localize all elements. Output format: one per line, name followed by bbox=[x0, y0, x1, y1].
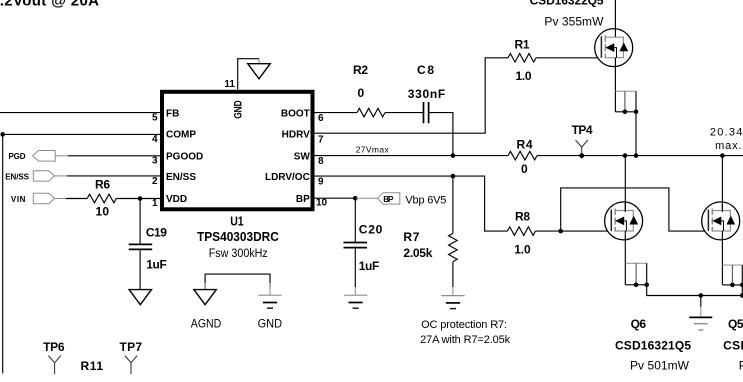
svg-text:Q5: Q5 bbox=[728, 317, 743, 331]
node TP4 junction bbox=[579, 153, 584, 158]
svg-text:max.: max. bbox=[715, 140, 742, 152]
wire Q4 source to bracket bbox=[614, 65, 616, 112]
svg-text:8: 8 bbox=[318, 156, 324, 167]
svg-text:11: 11 bbox=[224, 79, 235, 90]
svg-text:10: 10 bbox=[96, 204, 110, 218]
ground under C20 bbox=[344, 295, 367, 308]
svg-text:27A with R7=2.05k: 27A with R7=2.05k bbox=[420, 334, 511, 346]
svg-text:R8: R8 bbox=[515, 210, 530, 224]
svg-text:BP: BP bbox=[296, 194, 310, 205]
svg-text:330nF: 330nF bbox=[408, 87, 446, 101]
node rail right junction bbox=[740, 293, 743, 298]
node BP/C20 junction bbox=[353, 196, 358, 201]
wire COMP vertical down left edge bbox=[2, 134, 4, 373]
node R8 output junction bbox=[558, 229, 563, 234]
svg-text:1.2Vout @ 20A: 1.2Vout @ 20A bbox=[0, 0, 99, 10]
svg-text:Pv 501mW: Pv 501mW bbox=[630, 359, 690, 373]
node Q5 source junctions bbox=[730, 283, 735, 288]
svg-text:TPS40303DRC: TPS40303DRC bbox=[197, 230, 279, 245]
ground AGND above U1 bbox=[248, 64, 270, 79]
node VDD/C19 junction bbox=[138, 196, 143, 201]
IC U1 TPS40303DRC box bbox=[162, 92, 313, 210]
svg-text:U1: U1 bbox=[230, 216, 244, 229]
svg-text:AGND: AGND bbox=[191, 318, 221, 331]
svg-text:1uF: 1uF bbox=[359, 259, 380, 273]
svg-text:1.0: 1.0 bbox=[514, 242, 531, 256]
svg-text:Vbp 6V5: Vbp 6V5 bbox=[405, 194, 446, 206]
wire Q6 source to bracket bbox=[624, 238, 626, 285]
testpoint TP4 bbox=[576, 140, 588, 159]
svg-text:Pv 501mW: Pv 501mW bbox=[739, 359, 743, 373]
svg-text:PGD: PGD bbox=[9, 152, 26, 161]
capacitor C8 bbox=[423, 102, 425, 123]
resistor R2 bbox=[357, 108, 385, 117]
svg-text:BOOT: BOOT bbox=[281, 108, 310, 119]
wire Q6 source pins bracket bbox=[625, 262, 646, 264]
node Q4 source junctions bbox=[623, 110, 628, 115]
svg-text:GND: GND bbox=[233, 100, 245, 119]
svg-text:TP6: TP6 bbox=[43, 340, 65, 354]
svg-text:R11: R11 bbox=[81, 359, 104, 373]
transistor Q5 CSD16321Q5 (low side 2) bbox=[702, 202, 740, 240]
ground under power stage bbox=[700, 296, 702, 307]
wire C8 to SW node bbox=[429, 113, 453, 156]
wire Q5 drain bbox=[721, 156, 723, 212]
wire Q6 drain bbox=[624, 156, 626, 212]
wire R2 to C8 bbox=[385, 112, 423, 114]
wire R4 to right edge bbox=[537, 155, 743, 157]
port BP flag bbox=[355, 197, 377, 199]
svg-text:R1: R1 bbox=[515, 37, 530, 51]
wire Q4 drain up bbox=[614, 0, 616, 30]
svg-text:9: 9 bbox=[318, 177, 324, 188]
resistor R1 bbox=[508, 54, 536, 63]
wire R1 to Q4 gate bbox=[536, 57, 601, 59]
ground under R7 bbox=[441, 296, 464, 309]
svg-text:Pv 355mW: Pv 355mW bbox=[544, 15, 604, 29]
svg-text:10: 10 bbox=[316, 198, 328, 209]
resistor R4 bbox=[508, 151, 537, 160]
node R7 tap junction bbox=[451, 174, 456, 179]
wire COMP net to left edge bbox=[3, 133, 161, 135]
svg-text:Fsw 300kHz: Fsw 300kHz bbox=[209, 248, 268, 261]
wire PGD lead bbox=[55, 155, 68, 157]
svg-text:6: 6 bbox=[318, 113, 324, 124]
svg-text:20.34: 20.34 bbox=[710, 127, 743, 139]
svg-text:PGOOD: PGOOD bbox=[166, 151, 203, 162]
wire SW pin8 rail bbox=[314, 155, 508, 157]
node COMP junction bbox=[0, 132, 5, 137]
svg-text:CSD16321Q5: CSD16321Q5 bbox=[615, 339, 691, 353]
svg-text:C19: C19 bbox=[146, 226, 167, 240]
wire Q6 source to ground rail bbox=[647, 285, 743, 296]
wire VIN lead bbox=[55, 198, 67, 200]
node C8/SW junction bbox=[451, 153, 456, 158]
svg-text:EN/SS: EN/SS bbox=[5, 173, 29, 182]
node ground rail junction bbox=[699, 293, 704, 298]
wire Q4 source pins bracket bbox=[615, 90, 636, 92]
svg-text:VDD: VDD bbox=[166, 194, 187, 205]
resistor R6 bbox=[87, 194, 116, 203]
svg-text:1uF: 1uF bbox=[146, 257, 167, 271]
wire R8 to Q6 gate bbox=[536, 230, 612, 232]
svg-text:BP: BP bbox=[383, 195, 394, 204]
svg-text:4: 4 bbox=[152, 134, 158, 145]
wire BOOT pin6 bbox=[314, 112, 357, 114]
wire Q5 source pins bracket bbox=[722, 264, 742, 266]
svg-text:R6: R6 bbox=[95, 178, 110, 192]
node SW junctions bbox=[623, 153, 628, 158]
svg-text:GND: GND bbox=[258, 318, 283, 330]
ground AGND under C19 bbox=[129, 290, 151, 305]
svg-text:27Vmax: 27Vmax bbox=[356, 145, 390, 155]
svg-text:SW: SW bbox=[294, 151, 311, 162]
svg-text:7: 7 bbox=[318, 134, 324, 145]
svg-text:C8: C8 bbox=[417, 63, 434, 77]
svg-text:2: 2 bbox=[152, 176, 158, 187]
svg-text:1.0: 1.0 bbox=[516, 69, 532, 83]
node Q6 source junctions bbox=[634, 283, 639, 288]
svg-text:R7: R7 bbox=[403, 230, 419, 244]
svg-text:LDRV/OC: LDRV/OC bbox=[265, 172, 310, 183]
svg-text:TP7: TP7 bbox=[120, 340, 143, 354]
wire EN/SS lead bbox=[55, 175, 68, 177]
wire R6 to VDD bbox=[116, 198, 160, 200]
svg-text:5: 5 bbox=[152, 112, 158, 123]
ground AGND symbol bbox=[194, 290, 216, 305]
wire BP pin10 bbox=[314, 197, 355, 199]
capacitor C19 bbox=[139, 199, 141, 245]
ground GND symbol bbox=[258, 295, 281, 308]
svg-text:0: 0 bbox=[521, 162, 528, 176]
wire Q5 source to bracket bbox=[721, 238, 723, 285]
transistor Q4 CSD16322Q5 (high side) bbox=[595, 29, 633, 67]
svg-text:VIN: VIN bbox=[11, 195, 26, 204]
svg-text:OC protection R7:: OC protection R7: bbox=[421, 319, 507, 331]
svg-text:COMP: COMP bbox=[166, 130, 196, 141]
svg-text:0: 0 bbox=[358, 86, 365, 100]
wire gate feed to Q5 bbox=[561, 188, 709, 231]
svg-text:R4: R4 bbox=[517, 138, 533, 152]
svg-text:CSD16321Q5: CSD16321Q5 bbox=[723, 339, 743, 353]
svg-text:3: 3 bbox=[152, 156, 158, 167]
wire R7 to ground bbox=[452, 262, 454, 287]
svg-text:FB: FB bbox=[166, 108, 179, 119]
svg-text:HDRV: HDRV bbox=[282, 130, 310, 141]
wire AGND/GND bracket under U1 bbox=[205, 274, 270, 289]
svg-text:TP4: TP4 bbox=[572, 123, 593, 137]
testpoint TP6 bbox=[48, 356, 60, 375]
wire LDRV/OC pin9 bbox=[314, 176, 507, 231]
svg-text:R2: R2 bbox=[353, 63, 368, 77]
resistor R7 bbox=[449, 233, 458, 261]
wire R7 tap down bbox=[452, 176, 454, 233]
wire pin11 to AGND bbox=[238, 59, 259, 90]
testpoint TP7 bbox=[125, 356, 137, 375]
svg-text:C20: C20 bbox=[359, 222, 383, 236]
wire Q5 source down to rail bbox=[741, 285, 743, 296]
svg-text:EN/SS: EN/SS bbox=[166, 172, 196, 183]
capacitor C20 bbox=[354, 198, 356, 242]
svg-text:CSD16322Q5: CSD16322Q5 bbox=[530, 0, 604, 8]
resistor R8 bbox=[507, 227, 535, 236]
svg-text:1: 1 bbox=[152, 198, 158, 209]
wire HDRV pin7 to R1 bbox=[314, 58, 508, 133]
wire FB net to left edge bbox=[0, 112, 161, 114]
svg-text:Q6: Q6 bbox=[631, 317, 647, 331]
wire Q4 source down to SW bbox=[635, 112, 637, 156]
transistor Q6 CSD16321Q5 (low side) bbox=[605, 202, 643, 240]
svg-text:2.05k: 2.05k bbox=[403, 246, 432, 260]
